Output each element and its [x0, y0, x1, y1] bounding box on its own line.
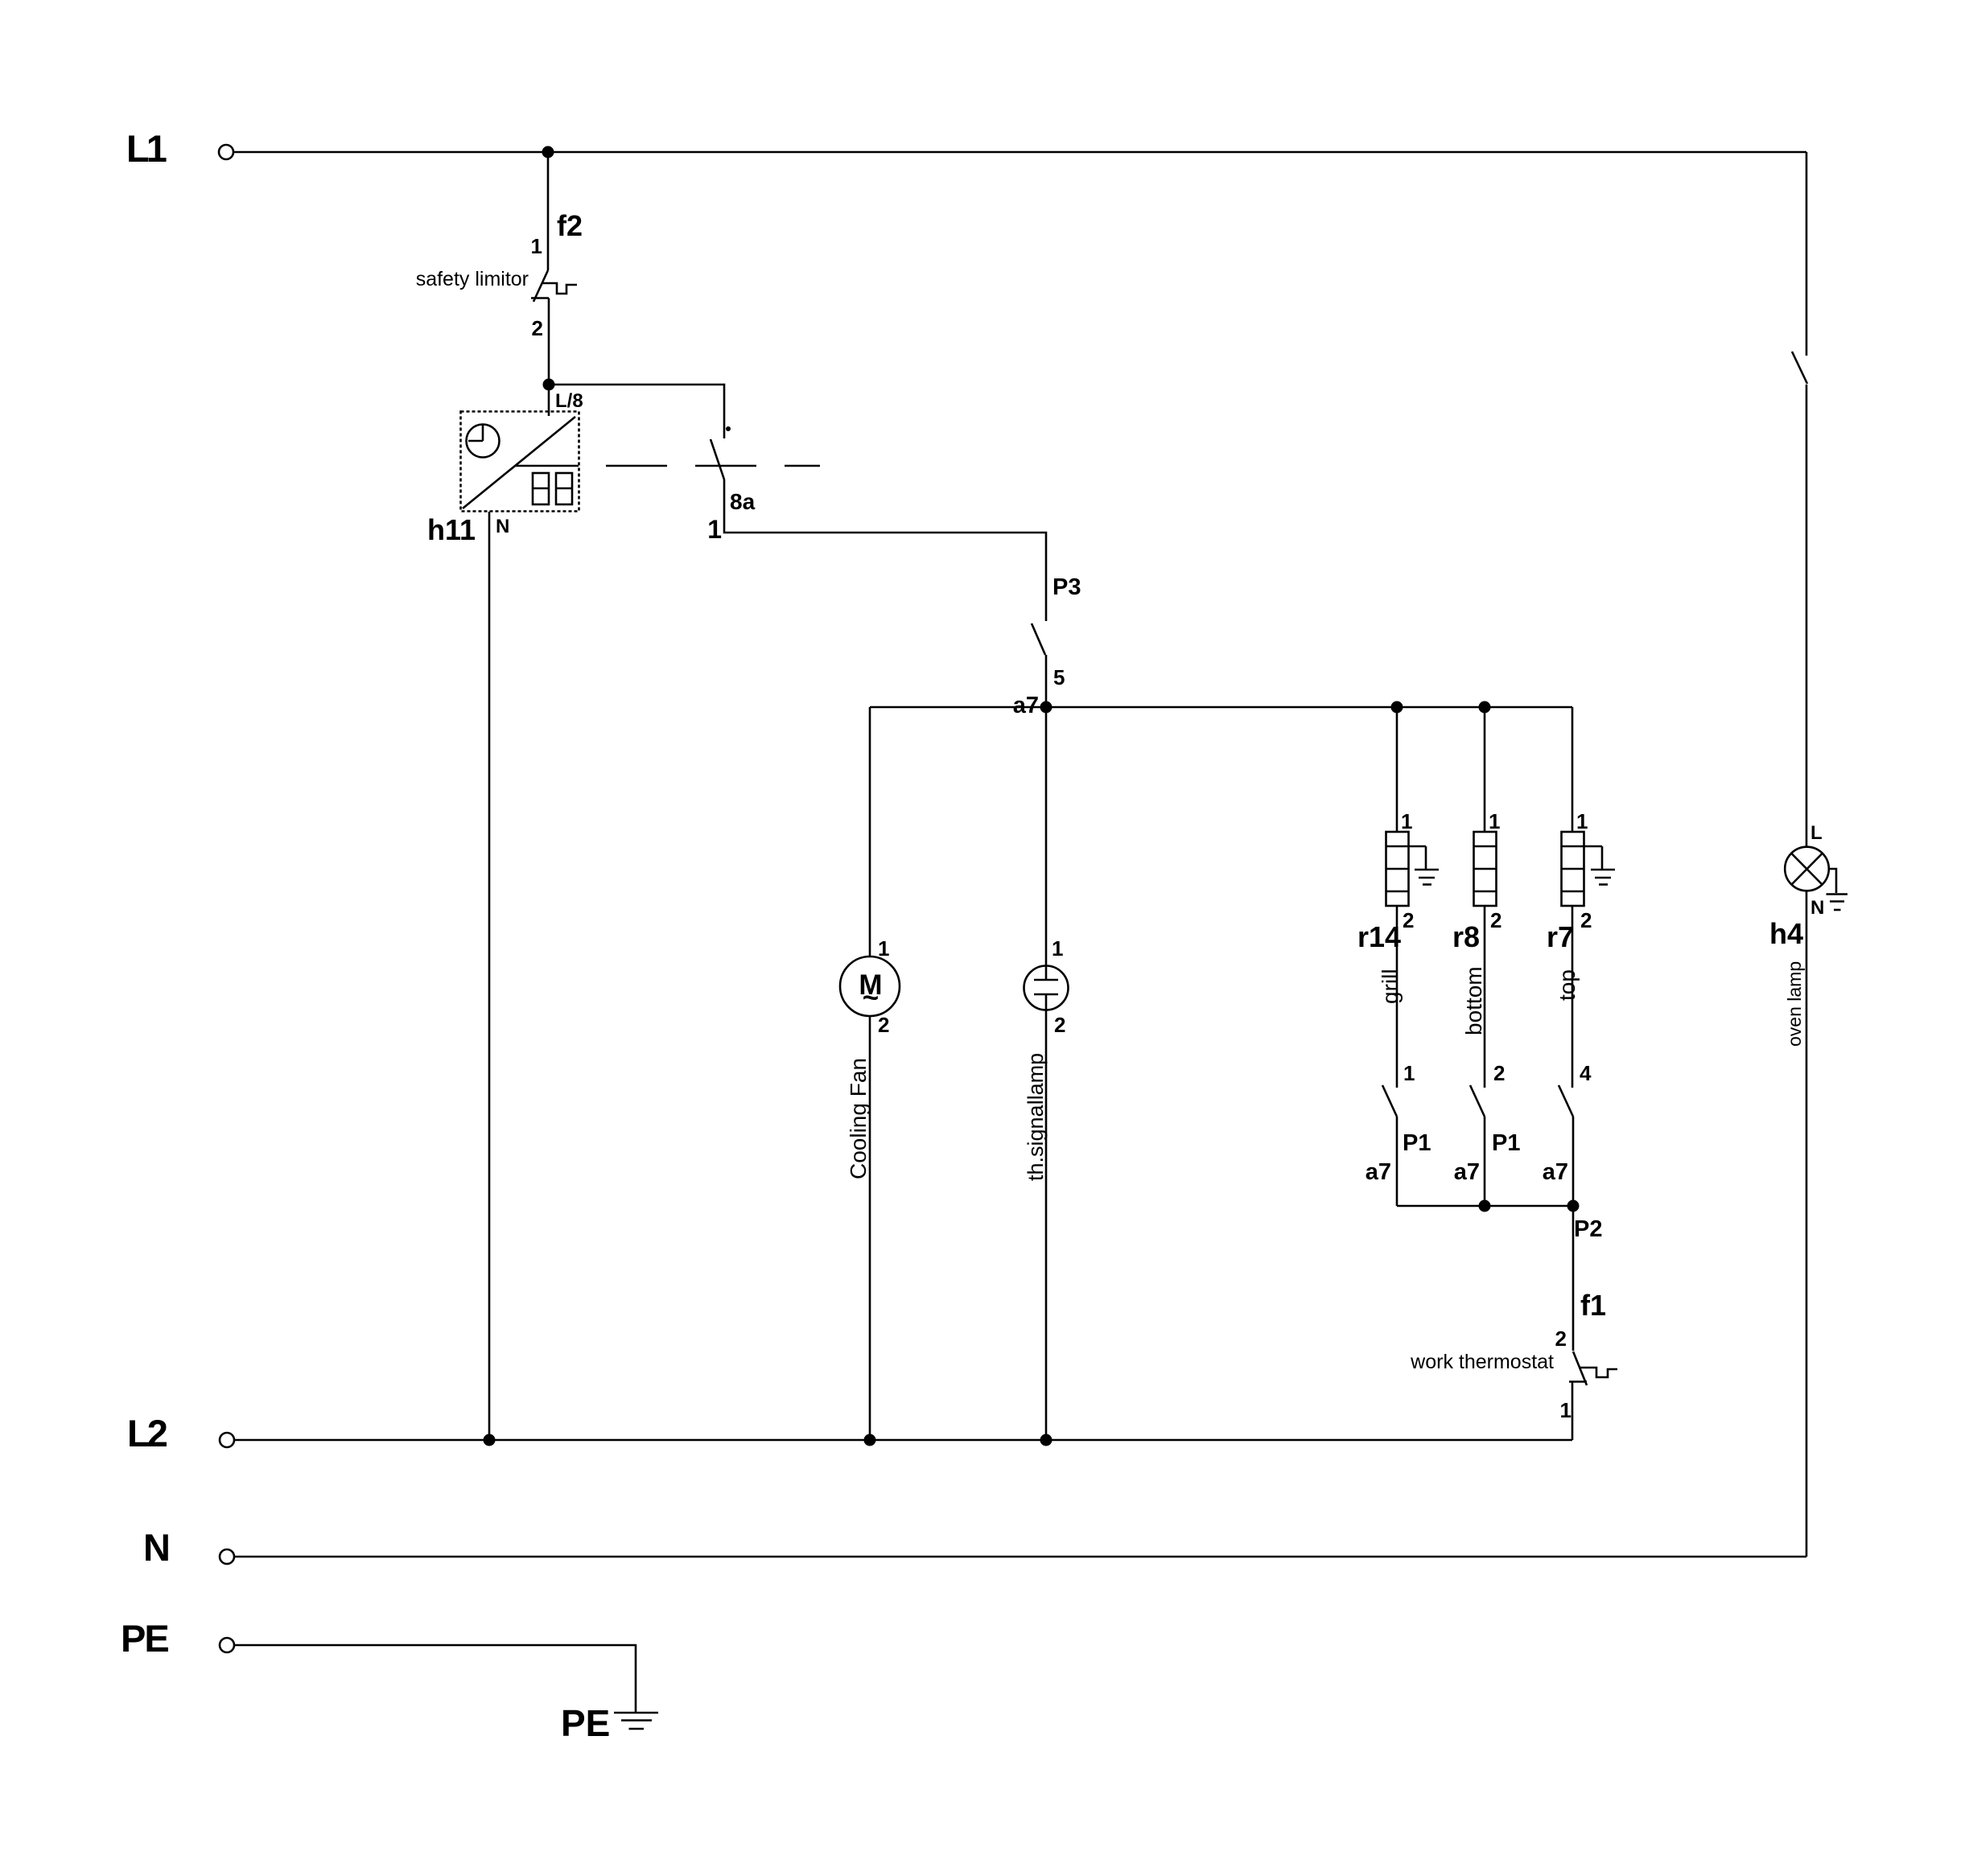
svg-text:2: 2 — [1054, 1013, 1065, 1037]
wire lamp h4 to N — [1806, 891, 1808, 1557]
node P2 — [1567, 1200, 1603, 1243]
svg-text:a7: a7 — [1454, 1159, 1480, 1185]
svg-text:1: 1 — [531, 234, 542, 258]
junction L1/f2 — [542, 146, 554, 158]
junction bottom bus r8 — [1479, 1200, 1491, 1212]
svg-text:r14: r14 — [1357, 920, 1401, 953]
svg-text:L2: L2 — [127, 1412, 167, 1454]
node L2 terminal — [127, 1412, 234, 1454]
svg-text:oven lamp: oven lamp — [1784, 961, 1805, 1047]
ground PE — [561, 1702, 658, 1744]
label grill — [1378, 969, 1403, 1004]
svg-text:L1: L1 — [126, 127, 167, 170]
timer h11 — [427, 412, 579, 547]
ground at lamp h4 — [1827, 869, 1848, 910]
thermal cutout f2 (safety limitor) — [416, 209, 583, 340]
wire r7 to switch — [1571, 906, 1574, 1088]
svg-text:a7: a7 — [1543, 1159, 1568, 1185]
svg-text:f2: f2 — [557, 209, 583, 242]
heating element r7 top — [1547, 809, 1602, 953]
svg-text:N: N — [496, 516, 509, 537]
mechanical link dashed — [606, 465, 820, 467]
svg-text:work thermostat: work thermostat — [1410, 1351, 1554, 1373]
junction node L/8 — [543, 379, 583, 413]
wire signal lamp to L2 — [1045, 994, 1048, 1440]
label top — [1555, 969, 1580, 1001]
svg-text:P2: P2 — [1574, 1216, 1602, 1242]
svg-text:N: N — [1810, 897, 1824, 919]
switch lamp (door) — [1792, 352, 1807, 384]
wire bus a7 — [870, 706, 1572, 709]
junction L2/signallamp — [1040, 1434, 1052, 1446]
wire f1 to L2 — [1571, 1382, 1574, 1441]
switch P3 — [1032, 574, 1081, 689]
node L1 terminal — [126, 127, 233, 170]
junction bus/r8 — [1479, 701, 1491, 714]
wire L/8 to switch 8a — [549, 385, 724, 438]
svg-text:L/8: L/8 — [555, 390, 583, 412]
svg-text:r7: r7 — [1547, 920, 1574, 953]
wire f2 to node L/8 — [548, 298, 550, 417]
wire f2 top — [547, 152, 550, 270]
svg-text:2: 2 — [1403, 908, 1414, 932]
wire PE rail — [234, 1645, 636, 1712]
svg-text:a7: a7 — [1013, 693, 1039, 718]
svg-text:1: 1 — [1560, 1398, 1571, 1422]
wire bottom bus — [1397, 1205, 1573, 1207]
switch a7 contact P1 (bottom) — [1454, 1061, 1521, 1185]
wire r8 to switch — [1484, 906, 1486, 1088]
wire L1 to lamp switch — [1806, 152, 1808, 356]
svg-text:8a: 8a — [730, 489, 756, 514]
junction L2/motor — [864, 1434, 876, 1446]
lamp h4 oven lamp — [1769, 822, 1829, 950]
svg-text:h11: h11 — [427, 513, 476, 546]
svg-text:1: 1 — [707, 515, 722, 544]
junction L2/h11 — [484, 1434, 496, 1446]
svg-text:P1: P1 — [1492, 1130, 1520, 1156]
svg-text:P1: P1 — [1403, 1130, 1431, 1156]
svg-text:P3: P3 — [1052, 574, 1081, 600]
svg-text:2: 2 — [1555, 1327, 1567, 1351]
svg-text:2: 2 — [532, 316, 543, 340]
svg-text:f1: f1 — [1580, 1289, 1606, 1322]
heating element r14 grill — [1357, 809, 1426, 953]
wire P3 to node a7 — [1045, 655, 1048, 707]
junction bus/r14 — [1391, 701, 1403, 714]
svg-text:1: 1 — [878, 936, 889, 961]
svg-text:1: 1 — [1401, 809, 1412, 833]
wire N rail — [234, 1556, 1806, 1558]
svg-text:1: 1 — [1576, 809, 1588, 833]
svg-text:N: N — [143, 1526, 171, 1569]
node N terminal — [143, 1526, 234, 1569]
svg-text:a7: a7 — [1366, 1159, 1391, 1185]
wire r14 to switch — [1396, 906, 1398, 1088]
switch 8a (timer contact) — [707, 426, 755, 544]
wire bus to r14 — [1396, 707, 1398, 832]
svg-text:2: 2 — [1580, 908, 1592, 932]
svg-text:r8: r8 — [1452, 920, 1480, 953]
svg-text:~: ~ — [863, 982, 879, 1014]
wire bus to r8 — [1484, 707, 1486, 832]
svg-text:PE: PE — [121, 1617, 168, 1660]
ground at r7 — [1591, 846, 1615, 885]
wire r14 switch to bottom bus — [1396, 1117, 1398, 1206]
svg-text:bottom: bottom — [1461, 966, 1486, 1035]
svg-text:grill: grill — [1378, 969, 1403, 1004]
motor M cooling fan — [840, 936, 900, 1037]
svg-text:top: top — [1555, 969, 1580, 1001]
svg-text:4: 4 — [1580, 1061, 1592, 1085]
wire r7 switch to node P2 — [1572, 1117, 1575, 1206]
wire L2 rail — [234, 1439, 1572, 1442]
svg-text:Cooling Fan: Cooling Fan — [846, 1058, 871, 1179]
svg-text:L: L — [1810, 822, 1823, 844]
svg-text:1: 1 — [1403, 1061, 1415, 1085]
node a7 bus — [1013, 693, 1052, 718]
wire h11 N to L2 — [488, 512, 491, 1440]
node PE terminal — [121, 1617, 234, 1660]
wire L1 rail — [234, 151, 1806, 154]
signal lamp th.signallamp — [1024, 936, 1069, 1037]
svg-text:5: 5 — [1053, 665, 1065, 689]
svg-text:2: 2 — [878, 1013, 889, 1037]
svg-text:2: 2 — [1493, 1061, 1505, 1085]
wire a7 to signal lamp — [1045, 707, 1048, 980]
svg-text:h4: h4 — [1769, 917, 1803, 950]
wire P2 to f1 — [1572, 1206, 1575, 1351]
wire bus to r7 — [1571, 707, 1574, 832]
svg-text:1: 1 — [1489, 809, 1500, 833]
wire r8 switch to bottom bus — [1484, 1117, 1486, 1206]
wire bus to motor — [869, 707, 871, 957]
wire switch to lamp h4 — [1806, 385, 1808, 847]
svg-text:safety limitor: safety limitor — [416, 268, 529, 290]
svg-text:th.signallamp: th.signallamp — [1024, 1053, 1048, 1181]
heating element r8 bottom — [1452, 809, 1502, 953]
ground at r14 — [1415, 846, 1439, 885]
label Cooling Fan — [846, 1058, 871, 1179]
svg-text:2: 2 — [1490, 908, 1501, 932]
svg-text:1: 1 — [1052, 936, 1063, 961]
wire 8a to P3 — [724, 479, 1046, 621]
switch a7 contact P1 (grill) — [1366, 1061, 1431, 1185]
svg-text:PE: PE — [561, 1702, 610, 1744]
label th.signallamp — [1024, 1053, 1048, 1181]
thermostat f1 (work thermostat) — [1410, 1289, 1617, 1422]
label oven lamp — [1784, 961, 1805, 1047]
wire motor to L2 — [869, 1016, 871, 1440]
switch a7 contact (top) — [1543, 1061, 1592, 1185]
label bottom — [1461, 966, 1486, 1035]
